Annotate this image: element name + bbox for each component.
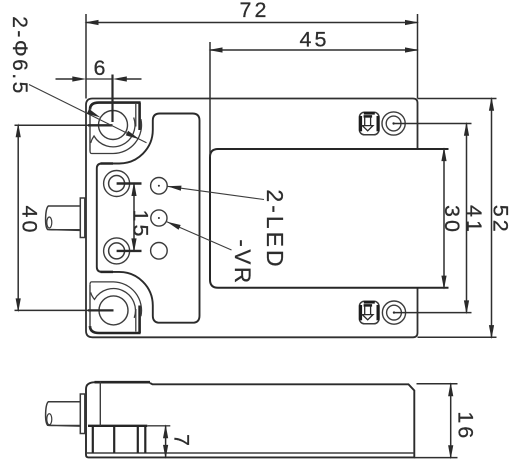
svg-text:16: 16 — [454, 411, 478, 441]
dim 72 — [86, 22, 418, 24]
bottom ear right edge (thick) — [138, 306, 141, 334]
side cap top edge thick — [95, 381, 151, 384]
dim 52 — [491, 99, 493, 338]
bottom strip verticals — [92, 426, 94, 453]
LED circle upper — [151, 178, 168, 195]
side view outline — [86, 382, 414, 457]
side view step line (7 ref) — [88, 425, 147, 427]
svg-text:-VR: -VR — [230, 239, 255, 285]
svg-text:30: 30 — [440, 205, 464, 235]
sensor body outline (top view, 72x52) — [86, 99, 418, 338]
raised pad + waist contour — [97, 114, 200, 323]
waist edge thick segments — [101, 162, 114, 165]
recessed window (45x30) — [210, 149, 449, 288]
dim 45 — [210, 49, 418, 51]
svg-text:52: 52 — [488, 205, 512, 235]
ear left edge — [89, 108, 91, 151]
svg-text:7: 7 — [170, 434, 194, 449]
ear right edge (thick) — [138, 103, 141, 130]
top ear boss inner arc — [91, 118, 135, 147]
VR potentiometer circle — [151, 210, 167, 226]
svg-text:6: 6 — [94, 56, 109, 80]
counterbore hole upper (outer) — [104, 171, 130, 197]
ear right edge (inner thin) — [135, 104, 137, 127]
counterbore hole lower (outer) — [104, 238, 130, 264]
svg-text:72: 72 — [240, 0, 270, 22]
bottom ear left edge — [89, 285, 91, 328]
svg-text:45: 45 — [300, 28, 330, 52]
counterbore hole upper (inner) — [109, 176, 125, 192]
dim 16 — [450, 384, 452, 458]
mounting hole top-left (phi 6.5) — [99, 111, 128, 140]
dim 30 — [443, 149, 445, 288]
svg-text:2-Φ6.5: 2-Φ6.5 — [8, 16, 31, 96]
clip icon bottom-right — [359, 301, 379, 324]
dim 40 — [17, 125, 19, 310]
dim 15 — [133, 184, 135, 251]
screw circle bottom-right — [382, 301, 405, 324]
dim 41 — [466, 124, 468, 313]
dim 7 — [165, 426, 167, 458]
svg-text:41: 41 — [462, 205, 486, 235]
counterbore hole lower (inner) — [109, 243, 125, 259]
top ear boss outer arc — [90, 119, 142, 153]
cable flange (side view) — [80, 394, 85, 434]
side cap division — [99, 382, 101, 426]
svg-text:15: 15 — [128, 210, 152, 240]
clip icon top-right — [359, 112, 379, 135]
side view inner bottom line — [86, 452, 414, 454]
cable (side view) — [46, 402, 81, 426]
bottom ear boss outer arc — [90, 282, 142, 316]
mounting hole bottom-left (phi 6.5) — [99, 296, 128, 325]
svg-text:40: 40 — [17, 206, 41, 236]
bottom ear plateau edge — [90, 326, 141, 333]
bottom ear boss inner arc — [91, 289, 136, 318]
dim 6 — [56, 78, 73, 80]
cable flange (top view) — [80, 198, 85, 238]
cable (top view) — [46, 206, 81, 230]
bottom ear right edge (inner thin) — [135, 309, 137, 332]
svg-text:2-LED: 2-LED — [262, 189, 288, 269]
cable end ellipse — [47, 217, 52, 228]
screw circle top-right — [382, 112, 405, 135]
mounting ear plateau top edge — [90, 103, 141, 110]
LED circle lower — [151, 243, 168, 260]
